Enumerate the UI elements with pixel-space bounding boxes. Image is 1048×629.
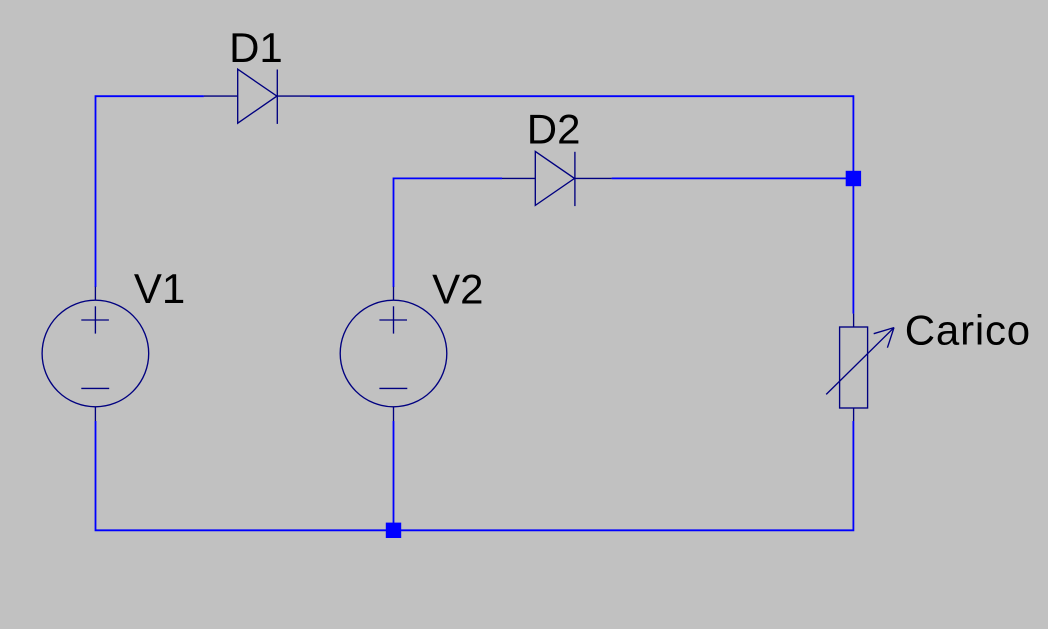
diode D2 — [502, 151, 612, 206]
svg-text:V2: V2 — [432, 265, 483, 312]
wire from V1 top to D1 anode (left vertical + top-left horizontal) — [96, 96, 204, 287]
voltage source V1 — [42, 287, 149, 421]
voltage source V2 — [340, 287, 447, 421]
svg-text:V1: V1 — [134, 265, 185, 312]
wire from D2 cathode to right junction — [612, 177, 854, 179]
wire from D1 cathode to right vertical down to load — [310, 96, 853, 313]
diode D1 — [204, 69, 310, 124]
svg-text:D1: D1 — [229, 24, 283, 71]
bottom wire from V1 bottom to load bottom — [96, 421, 854, 530]
junction node at V2 bottom / bottom rail — [386, 523, 401, 538]
wire from V2 top to D2 anode — [394, 178, 503, 287]
svg-text:D2: D2 — [527, 106, 581, 153]
svg-text:Carico: Carico — [905, 307, 1031, 354]
variable resistor (load) — [826, 314, 894, 421]
junction node at D2 output / right rail — [846, 171, 861, 186]
wire from V2 bottom to bottom rail — [393, 421, 395, 530]
